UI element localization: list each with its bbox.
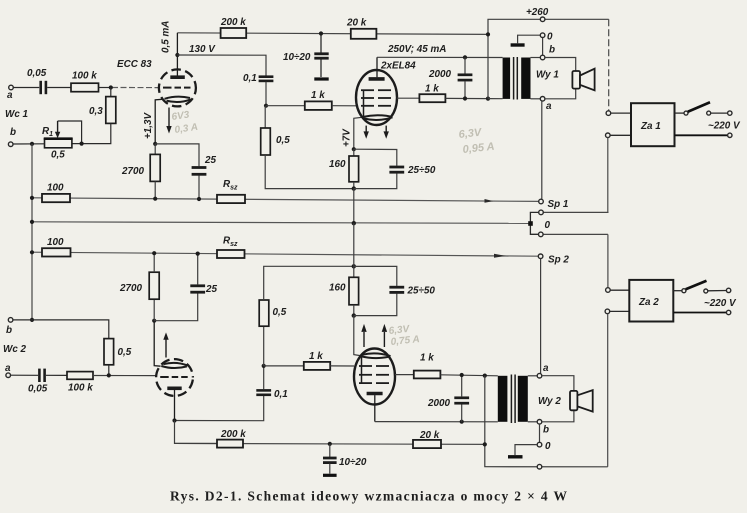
wire cathode node to 25÷50 ch2: [354, 294, 397, 316]
wire: Za2 to mains lower: [673, 312, 726, 314]
node: 2000 bottom dot ch2: [460, 420, 464, 424]
wire 0-terminal to ground ch2: [515, 445, 537, 455]
node: 160 bottom dot: [352, 186, 356, 190]
Wy2 primary winding: [498, 376, 508, 422]
node: grid junction dot: [109, 85, 113, 89]
wire: Sp2 down to a Wy2: [540, 259, 542, 374]
svg-text:0,5: 0,5: [276, 135, 290, 146]
terminal 0 ch1: [540, 33, 545, 38]
V2b anode bar: [367, 392, 383, 396]
terminal mains lower ch2: [726, 310, 730, 314]
svg-text:+1,3V: +1,3V: [143, 112, 154, 139]
terminal 0 lower (mid): [539, 232, 544, 237]
wire: secondary top to terminal a ch2: [528, 375, 537, 377]
wire V2 cathode jog: [354, 117, 362, 149]
resistor 0,5 grid leak ch2: [259, 266, 354, 366]
svg-text:~220 V: ~220 V: [708, 121, 741, 132]
svg-text:2000: 2000: [427, 398, 450, 409]
node: 10÷20 tap dot ch2: [328, 442, 332, 446]
V2b g3-cathode tie: [361, 357, 363, 384]
V1a cathode arcs: [165, 97, 191, 99]
wire: B+ vertical ch2: [485, 376, 608, 467]
V2b grid rows: [359, 366, 389, 383]
V2b heater arrows: [363, 332, 365, 347]
terminal Sp1: [539, 199, 544, 204]
wire: 0,1 to grid node V2: [265, 82, 267, 106]
terminal 0 ch2: [537, 442, 542, 447]
V2 anode bar: [369, 77, 385, 81]
V2 heater arrows: [365, 126, 367, 133]
resistor R_sz2: [217, 250, 245, 258]
svg-text:2xEL84: 2xEL84: [380, 61, 416, 72]
ground bar ch2: [508, 455, 523, 458]
svg-text:25: 25: [205, 284, 217, 295]
wire: Za1 to mains lower: [675, 134, 728, 136]
svg-text:0: 0: [545, 441, 551, 452]
svg-text:b: b: [10, 127, 16, 138]
Wy2 secondary winding: [518, 376, 528, 422]
wire: 130V anode node to coupling cap: [177, 55, 266, 76]
wire: 0 lower to Za2 upper-left: [607, 234, 609, 287]
svg-text:0: 0: [547, 32, 553, 43]
V1a grid dashes: [163, 87, 191, 89]
wire 100k to V1b grid: [93, 375, 156, 377]
wire: V1b anode L to coupling cap: [175, 396, 264, 421]
svg-text:a: a: [546, 101, 552, 112]
svg-text:Wc 1: Wc 1: [5, 109, 28, 120]
node: wiper tie dot: [80, 142, 84, 146]
svg-text:100: 100: [47, 237, 64, 248]
Wy1 primary winding: [503, 58, 511, 99]
svg-text:0,05: 0,05: [27, 68, 47, 79]
tube V1b envelope (dashed circle): [156, 359, 193, 396]
node: 2000 top dot ch2: [460, 373, 464, 377]
wire: secondary bottom to terminal a: [531, 98, 541, 100]
node dots on left bus: [30, 196, 34, 322]
svg-text:200 k: 200 k: [220, 429, 246, 440]
terminal b (Wc1): [8, 142, 13, 147]
node: V1a cathode dot: [153, 142, 157, 146]
svg-text:Wc 2: Wc 2: [3, 344, 27, 355]
terminal b (Wc2): [8, 318, 13, 323]
resistor 200k ch2: [217, 440, 243, 448]
wire: V2b screen to 1k: [395, 374, 414, 376]
wire C to 100k: [46, 374, 67, 376]
wire R 0.3 to pot node: [72, 123, 111, 143]
node: 25 cap bottom dot: [197, 197, 201, 201]
V1b grid dashes: [160, 376, 188, 378]
V2 cathode arcs: [363, 115, 392, 117]
wire 100k to grid node: [99, 87, 113, 89]
wire: 0-pair bracket: [530, 212, 538, 234]
node: V2 cathode dot: [352, 147, 356, 151]
svg-text:a: a: [7, 90, 13, 101]
svg-text:2700: 2700: [121, 166, 144, 177]
svg-text:20 k: 20 k: [346, 18, 367, 29]
resistor 20k ch1: [351, 29, 377, 39]
wire: Za1 lower-left down to 0 upper: [607, 138, 609, 213]
tube V2 envelope: [356, 70, 397, 125]
wire 25 cap to feedback line: [198, 176, 200, 200]
wire 0-terminal to ground: [518, 35, 541, 43]
resistor 160 ch2: [349, 277, 359, 305]
resistor 2700 ch2: [149, 272, 159, 299]
svg-text:b: b: [6, 325, 12, 336]
node: V2b cathode dot: [352, 313, 356, 317]
capacitor C 0.05 ch1: [41, 81, 46, 94]
resistor 1k screen ch1: [419, 94, 445, 102]
svg-text:20 k: 20 k: [419, 430, 440, 441]
resistor 200k ch1: [221, 28, 247, 38]
node: 25 cap top dot: [196, 252, 200, 256]
wire: b to speaker: [545, 58, 576, 72]
terminal b Wy1: [540, 55, 545, 60]
terminal circle on ch2 rail: [537, 464, 542, 469]
wire: 1k to V2b grid: [330, 365, 354, 367]
resistor 1k screen ch2: [414, 371, 441, 379]
wire 25÷50 to 160 node ch2: [354, 266, 397, 286]
speaker LS2: [570, 390, 593, 412]
Wy1 secondary winding: [521, 58, 530, 99]
svg-text:Wy 2: Wy 2: [538, 396, 561, 407]
svg-text:10÷20: 10÷20: [283, 52, 311, 63]
svg-text:+260: +260: [526, 7, 549, 18]
arrow on Sp2 line: [494, 254, 506, 258]
wire: +260 vertical ch1: [488, 19, 609, 98]
svg-text:0,5 mA: 0,5 mA: [161, 21, 172, 53]
node: V2b grid node dot: [262, 364, 266, 368]
capacitor 0,1 ch1: [259, 77, 274, 81]
wire cathode to 160: [353, 149, 355, 156]
resistor 2700 ch1: [150, 154, 160, 181]
node: ground bus dot: [352, 221, 356, 225]
wire 2700 to feedback line ch2: [153, 253, 155, 272]
node: input bus dot: [30, 142, 34, 146]
wire 0 to b link: [542, 38, 544, 56]
wire: grid node to 1k: [266, 105, 305, 107]
wire Za2 upper-left: [610, 289, 629, 291]
wire cathode to 25÷50: [354, 149, 397, 166]
wire cathode node to 25 cap: [155, 144, 199, 166]
node: B+ primary dot: [486, 97, 490, 101]
wire input a to C1: [13, 87, 39, 89]
V2b anode lead: [374, 395, 376, 422]
V2 anode lead: [376, 57, 378, 77]
resistor 100 lower: [42, 248, 71, 256]
resistor 100k ch2: [67, 372, 93, 380]
wire: 1k to V2 grid: [332, 105, 357, 107]
capacitor 25 ch1: [192, 168, 207, 175]
wire grid node to V1a grid (faded): [112, 87, 159, 89]
svg-text:a: a: [543, 363, 549, 374]
tube V1a envelope (dashed circle): [159, 69, 196, 106]
wire: secondary top to terminal b: [531, 57, 541, 59]
terminal Za1 lower-left: [606, 133, 611, 138]
wire Za1 lower-left: [610, 134, 631, 136]
svg-text:1 k: 1 k: [309, 351, 323, 362]
capacitor 25÷50 ch1: [389, 167, 404, 172]
svg-text:Za 1: Za 1: [640, 121, 661, 132]
wire: a down to Sp1: [541, 101, 543, 199]
wire grid node down to R 0.3: [110, 88, 112, 97]
wire: a to speaker: [545, 89, 576, 99]
resistor 100 upper: [42, 194, 70, 202]
svg-text:250V; 45 mA: 250V; 45 mA: [387, 44, 446, 55]
wire 160 to cathode node ch2: [353, 305, 355, 316]
V1b cathode arcs: [161, 366, 187, 368]
svg-text:200 k: 200 k: [220, 17, 246, 28]
box Za2: [629, 280, 673, 322]
wire: B+ feed line ch2 (200k/20k line): [174, 443, 485, 444]
wire: Za2 lower-left down to ch2 rail: [607, 314, 609, 467]
wire: feedback line R_sz2 / Sp2 net: [32, 252, 538, 256]
speaker LS1: [572, 69, 594, 91]
node: B+ tee dot: [486, 32, 490, 36]
wire: left vertical bus: [31, 144, 33, 320]
svg-text:+7V: +7V: [342, 128, 353, 147]
wire: center tail 160 node to ground bus: [353, 189, 355, 224]
V1a anode lead up: [176, 33, 178, 76]
wire: V2 anode to Wy1 primary top: [377, 56, 503, 58]
svg-text:0,1: 0,1: [243, 73, 257, 84]
V1a heater arrow: [168, 108, 170, 128]
V2 g3-cathode tie: [363, 90, 365, 117]
svg-text:ECC 83: ECC 83: [117, 59, 152, 70]
wire 0,1 to grid node ch2: [263, 366, 265, 390]
wire: primary bottom to Wy1: [488, 98, 503, 100]
resistor R_sz1: [217, 195, 245, 203]
wire: 1k screen to B+: [445, 97, 488, 99]
wire: ground bus to 160 node: [353, 223, 355, 277]
svg-text:1 k: 1 k: [420, 353, 434, 364]
wire C1 to R 100k: [47, 87, 71, 89]
wire: b to speaker ch2: [542, 410, 574, 421]
capacitor 2000 ch1: [458, 57, 473, 98]
wire: b to 0 link ch2: [539, 424, 541, 442]
wire: 1k screen to B+ ch2: [440, 375, 497, 376]
V1b heater arrow: [165, 339, 167, 358]
wire 160 to bottom node: [353, 182, 355, 189]
wire: grid node to 1k ch2: [264, 365, 304, 367]
resistor 100k ch1: [71, 83, 99, 92]
switch S1: [675, 102, 733, 115]
svg-text:25: 25: [204, 155, 216, 166]
wire a to C 0,05: [11, 374, 39, 376]
wire: V2b cathode jog: [354, 316, 360, 356]
resistor 1k grid ch2: [304, 362, 330, 370]
box Za1: [631, 103, 675, 146]
node: 2700 bottom dot: [153, 197, 157, 201]
terminal a Wy1: [540, 97, 545, 102]
tube V2b envelope: [354, 349, 395, 405]
wire b to R1: [13, 143, 45, 145]
svg-text:0,05: 0,05: [28, 384, 48, 395]
Wy1 core lines: [514, 57, 518, 100]
V1a cathode lead: [155, 99, 163, 144]
wire: lower 0 to Za2: [543, 233, 608, 235]
svg-text:Sp 1: Sp 1: [548, 199, 569, 210]
terminal b Wy2: [537, 420, 542, 425]
capacitor 0,1 ch2: [256, 390, 271, 394]
terminal 0 upper (mid): [539, 210, 544, 215]
node: 160 top dot ch2: [352, 264, 356, 268]
resistor 0,5 input ch2: [104, 339, 114, 365]
capacitor 25 ch2: [190, 286, 205, 292]
svg-text:100 k: 100 k: [68, 383, 93, 394]
wire: feedback line R_sz1 / Sp1 net: [32, 198, 539, 202]
resistor 160 ch1: [349, 156, 359, 182]
svg-text:25÷50: 25÷50: [407, 165, 436, 176]
svg-text:25÷50: 25÷50: [407, 286, 436, 297]
svg-text:b: b: [549, 45, 555, 56]
wire b to 0,5 input: [13, 320, 109, 339]
potentiometer R1 0.5: [44, 121, 73, 148]
capacitor 2000 ch2: [454, 375, 469, 422]
node: 2000 bottom dot: [463, 96, 467, 100]
wire: upper 0 to Za1: [543, 211, 608, 213]
svg-text:160: 160: [329, 159, 346, 170]
node: B+ primary dot ch2: [483, 374, 487, 378]
wire Za1 upper-left: [611, 112, 631, 114]
svg-text:0,5: 0,5: [118, 347, 132, 358]
V1a anode bar: [170, 75, 185, 79]
svg-text:0: 0: [545, 220, 551, 231]
V1b cathode lead: [154, 321, 160, 367]
ground bar ch2 filter: [323, 474, 337, 477]
svg-text:6,3V: 6,3V: [458, 127, 483, 141]
wire 25 cap to feedback line ch2: [197, 254, 199, 285]
wire: V2b anode to Wy2 primary bottom: [375, 421, 498, 423]
svg-text:a: a: [5, 363, 11, 374]
ground bar ch1 filter: [314, 77, 328, 80]
wire: central ground bus: [32, 222, 529, 224]
terminal Za1 upper-left: [606, 111, 611, 116]
wire R1 wiper loop: [58, 121, 82, 144]
wire: B+ feed line ch1 (anode corner to +260 vertical): [177, 33, 488, 35]
node: 10/20 tap dot: [319, 31, 323, 35]
terminal Za2 upper-left: [606, 288, 611, 293]
svg-text:1 k: 1 k: [425, 84, 439, 95]
wire 0,5 to grid node: [108, 365, 110, 376]
svg-text:100 k: 100 k: [72, 71, 97, 82]
terminal a (Wc1): [9, 85, 14, 90]
capacitor 25÷50 ch2: [389, 287, 404, 292]
svg-text:1 k: 1 k: [311, 90, 325, 101]
wire: anode down to 200k line: [175, 421, 218, 444]
wire cathode node to 2700 ch2: [153, 299, 155, 321]
svg-text:130 V: 130 V: [189, 44, 216, 55]
capacitor 10÷20 ch2 with ground: [323, 444, 337, 474]
wire cathode node to 25 cap ch2: [154, 293, 198, 320]
wire 2700 to feedback line: [154, 181, 156, 198]
svg-text:Za 2: Za 2: [638, 297, 659, 308]
wire: +260 rail down to Za1: [608, 19, 610, 111]
wire Za2 lower-left: [610, 310, 630, 312]
terminal a Wy2: [537, 373, 542, 378]
svg-text:Wy 1: Wy 1: [536, 70, 559, 81]
node: V1b cathode dot: [152, 319, 156, 323]
V1b anode lead: [174, 390, 176, 421]
svg-text:0,5: 0,5: [273, 307, 287, 318]
node: 20k tee dot ch2: [483, 442, 487, 446]
svg-text:0,3: 0,3: [89, 106, 103, 117]
V2b cathode arcs: [361, 356, 390, 358]
node: anode 130V dot: [175, 53, 179, 57]
node: ground bus square dot: [528, 221, 533, 226]
terminal Sp2: [538, 254, 543, 259]
capacitor 10÷20 ch1 with ground: [314, 34, 328, 78]
svg-text:2000: 2000: [428, 69, 451, 80]
svg-text:0,1: 0,1: [274, 389, 288, 400]
wire: V2 screen to 1k: [397, 97, 420, 99]
svg-text:10÷20: 10÷20: [339, 457, 367, 468]
svg-text:0,5: 0,5: [51, 150, 65, 161]
V2 grid rows: [361, 90, 391, 106]
terminal circle on +260 rail: [540, 17, 545, 22]
capacitor 0,05 ch2: [39, 369, 44, 382]
terminal Za2 lower-left: [605, 309, 610, 314]
wire: a to speaker ch2: [542, 376, 574, 391]
terminal a (Wc2): [6, 373, 11, 378]
svg-text:160: 160: [329, 283, 346, 294]
wire cathode node to 2700: [154, 144, 156, 155]
resistor 20k ch2: [413, 440, 441, 448]
svg-text:b: b: [543, 425, 549, 436]
switch S2: [673, 281, 731, 293]
svg-text:2700: 2700: [119, 283, 142, 294]
resistor 0.3: [106, 97, 116, 124]
node: ch2 grid dot: [107, 373, 111, 377]
terminal mains lower ch1: [728, 133, 732, 137]
node: V2 grid node dot: [264, 104, 268, 108]
ground bar ch1: [511, 43, 525, 46]
arrow on Sp1 line: [485, 199, 494, 203]
svg-text:100: 100: [47, 183, 64, 194]
wire: secondary bottom to terminal b ch2: [528, 421, 537, 423]
Wy2 core lines: [511, 375, 515, 424]
svg-text:~220 V: ~220 V: [704, 298, 737, 309]
resistor 0,5 grid leak ch1: [261, 106, 354, 189]
node: anode node dot ch2: [172, 418, 176, 422]
resistor 1k grid ch1: [305, 101, 332, 110]
node: 2000 top dot: [463, 55, 467, 59]
svg-text:Rys. D2-1. Schemat ideowy wzma: Rys. D2-1. Schemat ideowy wzmacniacza o …: [170, 489, 568, 504]
V1b anode bar: [167, 386, 181, 390]
wire 25÷50 to bottom node: [354, 173, 397, 188]
node: 2700 top dot: [152, 251, 156, 255]
svg-text:Sp 2: Sp 2: [548, 255, 569, 266]
